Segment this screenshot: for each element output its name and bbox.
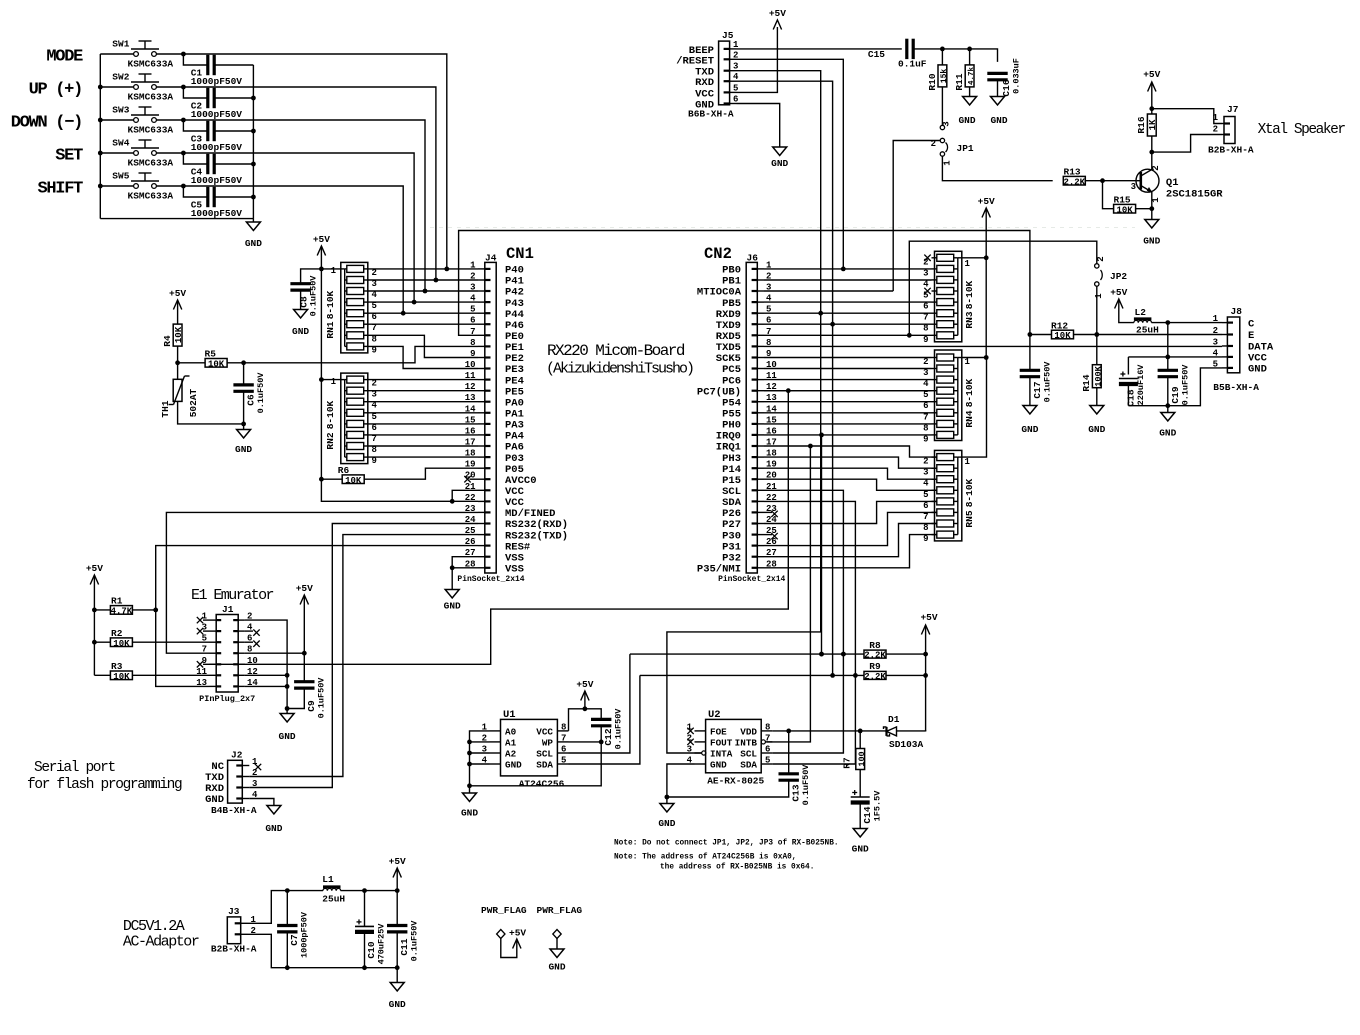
svg-text:PWR_FLAG: PWR_FLAG — [537, 905, 583, 916]
svg-text:6: 6 — [923, 501, 928, 511]
svg-text:0.1uF50V: 0.1uF50V — [1043, 361, 1053, 403]
svg-text:Q1: Q1 — [1166, 177, 1179, 189]
svg-text:C18: C18 — [1126, 389, 1137, 406]
wire RS232(RXD) to J2 — [249, 524, 478, 788]
svg-text:UP (+): UP (+) — [29, 81, 82, 100]
wire U2 VDD row — [772, 730, 886, 732]
svg-text:R13: R13 — [1064, 167, 1081, 178]
svg-text:1000pF50V: 1000pF50V — [191, 76, 243, 87]
svg-text:VDD: VDD — [740, 727, 757, 738]
svg-text:J2: J2 — [231, 750, 243, 761]
svg-text:502AT: 502AT — [188, 388, 199, 417]
svg-text:8-10K: 8-10K — [325, 290, 336, 319]
svg-text:GND: GND — [658, 818, 675, 829]
resistor R5 — [178, 362, 205, 364]
no-connect P30 pin25 — [764, 534, 772, 536]
svg-text:7: 7 — [470, 327, 475, 337]
jumper JP2 — [1095, 264, 1099, 268]
svg-text:8: 8 — [923, 324, 928, 334]
connector J3 — [227, 917, 240, 944]
svg-text:4.7k: 4.7k — [968, 67, 976, 86]
svg-text:GND: GND — [505, 760, 522, 771]
svg-text:RX220 Micom-Board: RX220 Micom-Board — [547, 342, 685, 360]
wire IRQ1 row — [764, 446, 937, 457]
wire L2 to J8 pin1 — [1151, 322, 1222, 324]
wire SW4 to CN1 — [183, 153, 414, 302]
ground power GND — [396, 968, 398, 983]
svg-text:+5V: +5V — [1110, 287, 1127, 298]
wire TXD5 to J8 DATA — [764, 345, 1222, 347]
svg-text:INTB: INTB — [735, 738, 758, 749]
wires RN1 to CN1 pins 1-6 — [368, 268, 478, 270]
svg-text:1000pF50V: 1000pF50V — [191, 175, 243, 186]
svg-text:SW1: SW1 — [112, 39, 129, 50]
wire R2 to J1 pin5 — [132, 641, 209, 643]
svg-text:KSMC633A: KSMC633A — [128, 191, 174, 202]
svg-text:Note: Do not connect JP1, JP2,: Note: Do not connect JP1, JP2, JP3 of RX… — [614, 840, 839, 848]
svg-text:1K: 1K — [1148, 119, 1158, 130]
wire MD/FINED to J1 pin7 — [166, 512, 478, 653]
svg-text:0.1uF50V: 0.1uF50V — [801, 764, 811, 806]
resistor R7 — [859, 731, 861, 749]
ground C6 GND — [243, 424, 245, 430]
svg-text:11: 11 — [196, 667, 207, 677]
wire RXD5 to RN3 — [764, 334, 932, 336]
svg-text:13: 13 — [465, 393, 476, 403]
svg-text:13: 13 — [196, 678, 207, 688]
svg-text:0.1uF50V: 0.1uF50V — [1181, 364, 1191, 406]
wire switch bottom rail — [100, 218, 253, 220]
svg-text:SET: SET — [55, 147, 83, 166]
svg-text:P35/NMI: P35/NMI — [697, 564, 741, 576]
svg-text:17: 17 — [465, 438, 476, 448]
svg-text:D1: D1 — [888, 714, 900, 725]
svg-text:2.2K: 2.2K — [864, 651, 886, 661]
wire C18 C19 ground rail — [1128, 368, 1222, 406]
wires CN2 pins 9-16 to RN4 — [764, 357, 932, 359]
svg-text:KSMC633A: KSMC633A — [128, 59, 174, 70]
svg-text:10K: 10K — [174, 326, 184, 343]
svg-text:SHIFT: SHIFT — [37, 180, 83, 199]
ground C14 GND — [853, 829, 867, 838]
svg-text:AT24C256: AT24C256 — [519, 779, 565, 790]
svg-text:+5V: +5V — [313, 234, 330, 245]
capacitor C5 — [183, 186, 207, 197]
capacitor C12 — [585, 709, 601, 720]
wire R12 row to J8 pin2 — [1097, 334, 1222, 336]
ground U2 GND — [666, 797, 668, 804]
wire RN1 common to +5V — [321, 268, 340, 270]
svg-text:SW3: SW3 — [112, 105, 129, 116]
resistor R10 — [941, 49, 943, 65]
connector J5 — [719, 41, 730, 105]
svg-text:0.1uF: 0.1uF — [898, 59, 927, 70]
wire P14 to RN5 — [764, 468, 937, 479]
svg-text:R11: R11 — [954, 73, 965, 90]
wire L2 node down to VCC row — [1167, 323, 1169, 357]
svg-text:GND: GND — [1088, 424, 1105, 435]
wire U1 SDA up — [569, 675, 640, 764]
svg-text:GND: GND — [235, 444, 252, 455]
svg-text:1F5.5V: 1F5.5V — [873, 790, 883, 822]
svg-text:10K: 10K — [113, 672, 130, 682]
svg-text:+5V: +5V — [509, 928, 526, 939]
svg-text:1: 1 — [1094, 293, 1104, 299]
svg-text:FOE: FOE — [710, 727, 727, 738]
svg-text:R6: R6 — [338, 465, 350, 476]
svg-text:/RESET: /RESET — [676, 55, 714, 67]
svg-text:25: 25 — [465, 526, 476, 536]
svg-text:GND: GND — [245, 238, 262, 249]
resistor R11 — [969, 49, 971, 65]
wire P35/NMI to RN5 — [764, 535, 937, 568]
svg-text:GND: GND — [1159, 428, 1176, 439]
svg-text:U2: U2 — [708, 709, 721, 721]
wire P32 to RN5 — [764, 524, 937, 557]
svg-text:3: 3 — [1131, 182, 1136, 192]
svg-text:GND: GND — [461, 808, 478, 819]
svg-text:1: 1 — [470, 260, 476, 270]
svg-text:U1: U1 — [503, 709, 516, 721]
wires CN2 pins 1-2 to RN3 — [764, 268, 932, 270]
svg-text:SW2: SW2 — [112, 72, 129, 83]
wire J2 GND — [249, 799, 274, 806]
svg-text:Serial port: Serial port — [34, 760, 116, 776]
wire RES# to E1 — [156, 546, 478, 687]
resistor network RN1 — [341, 262, 368, 353]
wire J1 pin2 ground rail — [245, 620, 287, 708]
svg-text:C7: C7 — [289, 934, 300, 946]
transistor Q1 — [1136, 169, 1159, 192]
wire JP1 pin1 to R13 — [942, 156, 1052, 181]
capacitor C15 — [905, 39, 908, 59]
svg-text:E: E — [1248, 330, 1254, 342]
capacitor C10 — [364, 891, 366, 927]
wire RN3 common to +5V rail — [962, 257, 986, 259]
svg-text:8: 8 — [470, 338, 475, 348]
wire J5 GND — [737, 104, 780, 148]
jumper JP1 — [941, 124, 943, 126]
svg-text:3: 3 — [687, 745, 692, 755]
svg-text:8-10K: 8-10K — [964, 280, 975, 309]
no-connect RN3 row4 — [924, 288, 930, 294]
wire P31 to RN5 — [764, 512, 937, 545]
wire U2 GND pin4 — [667, 764, 695, 797]
svg-text:C12: C12 — [603, 728, 614, 745]
svg-text:5: 5 — [923, 390, 928, 400]
svg-text:GND: GND — [852, 844, 869, 855]
svg-text:16: 16 — [465, 426, 476, 436]
wire R6 to P05 pin19 — [364, 468, 478, 479]
wire SW3 to CN1 — [183, 120, 425, 291]
svg-text:6: 6 — [923, 302, 928, 312]
svg-text:4: 4 — [470, 294, 476, 304]
capacitor C11 — [396, 891, 398, 926]
capacitor C1 — [183, 54, 207, 65]
svg-text:10: 10 — [465, 360, 476, 370]
svg-text:MODE: MODE — [46, 48, 83, 67]
wire J1 pin8 to +5V — [245, 652, 304, 654]
svg-text:10K: 10K — [113, 639, 130, 649]
svg-text:RN5: RN5 — [964, 510, 975, 527]
ground J5 GND — [773, 147, 787, 156]
svg-text:100: 100 — [857, 751, 867, 766]
power +5V J5 VCC — [737, 27, 778, 92]
svg-text:+5V: +5V — [1143, 69, 1160, 80]
svg-text:C13: C13 — [791, 784, 802, 801]
svg-text:R4: R4 — [162, 335, 173, 347]
connector J1 PinPlug_2x7 — [216, 615, 238, 693]
svg-text:R7: R7 — [842, 757, 853, 769]
no-connect RN3 row1 — [924, 255, 930, 261]
svg-text:2SC1815GR: 2SC1815GR — [1166, 189, 1223, 201]
ground C8 GND — [294, 310, 308, 319]
svg-text:3: 3 — [252, 779, 257, 789]
svg-text:1: 1 — [1213, 314, 1219, 324]
no-connect J2 pin1 — [255, 764, 261, 770]
wire PC7(UB) to J1 pin10 — [764, 390, 932, 392]
wire capacitor ground rail — [252, 65, 254, 219]
svg-text:2.2K: 2.2K — [864, 672, 886, 682]
wire R16 bottom to J7 pin2 — [1152, 135, 1222, 153]
switch SW4 — [100, 152, 133, 154]
svg-text:+5V: +5V — [769, 8, 786, 19]
no-connect U2 pin1 — [687, 728, 693, 734]
diode D1 SD103A — [885, 727, 887, 736]
wire U1 VCC — [569, 709, 585, 731]
no-connect J1 pin3 — [197, 628, 203, 634]
svg-text:22: 22 — [465, 493, 476, 503]
svg-text:DOWN (−): DOWN (−) — [11, 114, 82, 133]
svg-text:DC5V1.2A: DC5V1.2A — [123, 918, 185, 935]
svg-text:INTA: INTA — [710, 749, 733, 760]
svg-text:J5: J5 — [722, 30, 734, 41]
svg-text:E1 Emurator: E1 Emurator — [191, 587, 274, 604]
svg-text:GND: GND — [389, 999, 406, 1010]
wire SCL pull-up row R8 — [630, 653, 864, 655]
svg-text:28: 28 — [465, 559, 476, 569]
wire JP2 pin2 to RXD5 — [909, 241, 1097, 335]
no-connect J1 pin1 — [197, 617, 203, 623]
switch SW3 — [100, 119, 133, 121]
no-connect J1 pin4 — [245, 630, 253, 632]
svg-text:R1: R1 — [111, 596, 123, 607]
ground E1 GND — [286, 709, 288, 714]
wire SW1 to CN1 — [183, 54, 446, 269]
resistor R2 — [94, 641, 110, 643]
node SW2 output — [181, 85, 186, 90]
svg-text:SCL: SCL — [740, 749, 757, 760]
capacitor C8 — [301, 269, 322, 284]
svg-text:CN2: CN2 — [704, 245, 732, 263]
svg-text:Note: The address of AT24C256B: Note: The address of AT24C256B is 0xA0, — [614, 854, 796, 862]
svg-text:VCC: VCC — [536, 727, 553, 738]
wire C15 to R10 R11 C16 — [913, 49, 997, 62]
svg-text:PInPlug_2x7: PInPlug_2x7 — [199, 694, 255, 704]
svg-text:24: 24 — [465, 515, 476, 525]
svg-text:GND: GND — [292, 326, 309, 337]
svg-text:470uF25V: 470uF25V — [377, 923, 387, 965]
wire JP2 pin1 to R12 R14 — [1096, 286, 1098, 334]
capacitor C14 — [851, 796, 870, 798]
ground Q1 GND — [1145, 220, 1159, 229]
thermistor TH1 — [177, 363, 179, 380]
svg-text:2.2K: 2.2K — [1063, 177, 1085, 187]
resistor R15 — [1103, 181, 1114, 209]
svg-text:10: 10 — [247, 656, 258, 666]
svg-text:R14: R14 — [1081, 374, 1092, 391]
svg-text:0.1uF50V: 0.1uF50V — [410, 920, 420, 962]
wire TXD9 to RN3 — [764, 323, 932, 325]
svg-text:5: 5 — [470, 305, 475, 315]
svg-text:7: 7 — [923, 313, 928, 323]
svg-text:C15: C15 — [868, 49, 885, 60]
svg-text:JP1: JP1 — [957, 143, 974, 154]
svg-text:GND: GND — [1248, 364, 1267, 376]
wire PE0 sensor line — [459, 231, 1030, 336]
wire U2 SDA — [772, 675, 855, 764]
capacitor C9 — [294, 680, 314, 683]
ground U1 GND — [463, 793, 477, 802]
svg-text:GND: GND — [265, 823, 282, 834]
inductor L2 — [1134, 317, 1152, 320]
svg-text:C14: C14 — [862, 806, 873, 823]
svg-text:B2B-XH-A: B2B-XH-A — [1208, 145, 1254, 156]
svg-text:5: 5 — [202, 634, 207, 644]
svg-text:GND: GND — [279, 731, 296, 742]
svg-text:PWR_FLAG: PWR_FLAG — [481, 905, 527, 916]
svg-text:+5V: +5V — [920, 612, 937, 623]
wire VCC pins 21 22 — [450, 499, 455, 504]
ground R11 GND — [963, 97, 977, 106]
wire SW5 to CN1 — [183, 186, 403, 313]
svg-text:J1: J1 — [222, 604, 234, 615]
wire PB5 to RN3 — [764, 301, 932, 303]
wire VCC row to J8 pin4 — [1128, 356, 1222, 358]
resistor R9 — [864, 671, 886, 679]
wire switch left rail — [99, 54, 101, 219]
svg-text:6: 6 — [923, 401, 928, 411]
resistor network RN3 — [935, 251, 962, 341]
svg-text:27: 27 — [465, 548, 476, 558]
svg-text:3: 3 — [923, 368, 928, 378]
connector J8 — [1227, 317, 1239, 373]
svg-text:1000pF50V: 1000pF50V — [191, 142, 243, 153]
node SW1 output — [181, 52, 186, 57]
svg-text:0.1uF50V: 0.1uF50V — [317, 677, 327, 719]
wire RN4 common to +5V rail — [962, 357, 986, 359]
node SW4 output — [181, 151, 186, 156]
capacitor C2 — [183, 87, 207, 98]
wire RN1 row8 to PE3 pin10 — [368, 346, 478, 368]
IC U2 AE-RX-8025 — [706, 719, 762, 772]
resistor R14 — [1096, 335, 1098, 365]
no-connect AVCC0 pin20 — [470, 478, 479, 480]
svg-text:21: 21 — [465, 482, 476, 492]
svg-text:GND: GND — [1143, 236, 1160, 247]
svg-text:1: 1 — [331, 266, 337, 276]
no-connect J1 pin6 — [245, 641, 253, 643]
svg-text:26: 26 — [465, 537, 476, 547]
ground C19 GND — [1167, 406, 1169, 413]
ground switches GND — [252, 219, 254, 222]
svg-text:7: 7 — [202, 645, 207, 655]
svg-text:5: 5 — [923, 490, 928, 500]
ground C16 GND — [991, 97, 1005, 106]
svg-text:PinSocket_2x14: PinSocket_2x14 — [457, 575, 524, 584]
resistor R4 — [173, 324, 182, 346]
svg-text:GND: GND — [1021, 424, 1038, 435]
capacitor C13 — [788, 731, 790, 774]
wire JP1 pin2 to MTIOC0A — [893, 141, 940, 292]
capacitor C19 — [1167, 357, 1169, 370]
svg-text:TH1: TH1 — [160, 400, 171, 417]
wire SDA from CN2 — [764, 501, 855, 675]
svg-text:1000pF50V: 1000pF50V — [191, 109, 243, 120]
svg-text:10K: 10K — [1054, 331, 1071, 341]
resistor network RN4 — [935, 350, 962, 441]
svg-text:R8: R8 — [869, 640, 881, 651]
svg-text:3: 3 — [1213, 337, 1218, 347]
svg-text:1: 1 — [965, 357, 971, 367]
svg-text:9: 9 — [923, 335, 928, 345]
svg-text:7: 7 — [561, 733, 566, 743]
svg-text:CN1: CN1 — [506, 245, 534, 263]
svg-text:SDA: SDA — [740, 760, 757, 771]
wire U1 SCL up — [569, 654, 630, 753]
svg-text:4.7K: 4.7K — [111, 607, 133, 617]
resistor R12 — [1030, 334, 1052, 336]
capacitor C6 — [243, 363, 245, 385]
svg-text:J3: J3 — [228, 906, 240, 917]
wire J5 RXD vertical — [737, 81, 833, 675]
svg-text:Xtal Speaker: Xtal Speaker — [1258, 122, 1346, 138]
resistor network RN5 — [935, 450, 962, 541]
svg-text:J8: J8 — [1231, 306, 1243, 317]
svg-text:R15: R15 — [1114, 195, 1131, 206]
svg-text:C10: C10 — [366, 941, 377, 958]
connector J7 — [1224, 117, 1235, 144]
svg-text:12: 12 — [465, 382, 476, 392]
IC U1 AT24C256 — [501, 719, 558, 776]
wire P15 to RN5 — [764, 479, 937, 490]
svg-text:1000pF50V: 1000pF50V — [191, 208, 243, 219]
svg-text:4: 4 — [1213, 348, 1219, 358]
capacitor C16 — [987, 72, 1007, 75]
svg-text:GND: GND — [444, 601, 461, 612]
wire J3 pin1 to rail — [248, 891, 288, 924]
svg-text:VSS: VSS — [505, 564, 524, 576]
svg-text:C16: C16 — [1001, 79, 1012, 96]
svg-text:2: 2 — [470, 272, 475, 282]
ground R14 GND — [1090, 406, 1104, 415]
wire Q1 collector — [1151, 152, 1153, 169]
svg-text:19: 19 — [465, 460, 476, 470]
wire PH3 to RN5 — [764, 457, 937, 468]
svg-text:FOUT: FOUT — [710, 738, 733, 749]
svg-text:R9: R9 — [869, 661, 881, 672]
resistor R8 — [864, 650, 886, 658]
svg-text:100K: 100K — [1093, 365, 1103, 386]
node SW5 output — [181, 184, 186, 189]
svg-text:GND: GND — [710, 760, 727, 771]
ground CN1 VSS GND — [445, 590, 459, 599]
wire SCL from CN2 — [764, 490, 843, 654]
svg-text:1: 1 — [965, 457, 971, 467]
svg-text:GND: GND — [548, 962, 565, 973]
wire BEEP net — [737, 48, 902, 50]
svg-text:4: 4 — [923, 379, 929, 389]
